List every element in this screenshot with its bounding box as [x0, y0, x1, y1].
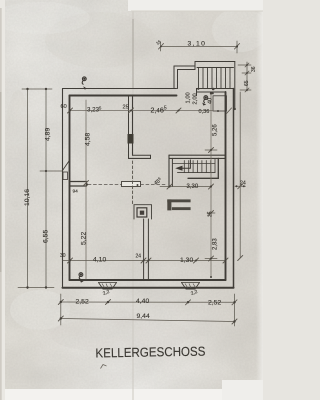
- exterior stairs top edge: [197, 67, 234, 69]
- interior wall vertical lower: [143, 219, 145, 280]
- entry enclosure top wall: [174, 65, 195, 67]
- wall top right segment under exterior stair: [197, 88, 234, 90]
- stair room left wall: [168, 155, 170, 186]
- window hatch right: [185, 284, 196, 289]
- dim bottom outside y300: [61, 301, 235, 303]
- steps symbol lower room: [167, 199, 190, 202]
- svg-text:2,00: 2,00: [193, 93, 199, 104]
- wall pier: [122, 182, 141, 187]
- small mark under title: [101, 365, 107, 369]
- interior stairs risers: [184, 158, 215, 172]
- dim right wall outside x240: [239, 92, 241, 258]
- dim 3,10 line: [161, 46, 238, 48]
- svg-text:94: 94: [73, 189, 79, 195]
- symbol 40 entry: [204, 96, 208, 103]
- entry enclosure jog: [194, 62, 196, 70]
- dimension lines group: [18, 41, 251, 326]
- svg-text:3,10: 3,10: [188, 41, 207, 48]
- svg-text:24: 24: [240, 181, 246, 187]
- svg-text:3,30: 3,30: [187, 184, 199, 190]
- svg-text:5,22: 5,22: [81, 232, 88, 245]
- svg-text:60: 60: [61, 104, 67, 110]
- svg-text:24: 24: [136, 254, 142, 260]
- svg-text:4,10: 4,10: [93, 257, 106, 264]
- entry enclosure top wall 2: [195, 61, 235, 63]
- dim line B 10,16: [27, 89, 29, 289]
- svg-text:1,30: 1,30: [180, 257, 193, 264]
- svg-text:10,16: 10,16: [24, 189, 31, 206]
- window hatch left: [102, 284, 113, 289]
- wall mid-left horizontal: [70, 181, 87, 183]
- svg-text:2,52: 2,52: [76, 299, 89, 306]
- dim line A 4,89 / 6,55: [45, 89, 47, 288]
- window left bottom wall: [99, 283, 117, 290]
- interior stairs lower edge: [178, 172, 216, 174]
- chimney solid: [128, 134, 134, 144]
- enclosure wall end tick: [232, 108, 241, 110]
- wall left outer: [62, 89, 64, 288]
- svg-text:2,83: 2,83: [213, 238, 219, 250]
- wall left inner: [69, 96, 71, 281]
- dim bottom outside y320.5: [61, 319, 235, 322]
- wall right outer: [233, 89, 235, 288]
- interior wall leg: [129, 157, 151, 159]
- dim interior horizontal y110: [70, 110, 213, 112]
- niche in left wall: [63, 160, 70, 170]
- symbol 40 top wall: [82, 77, 86, 85]
- svg-text:0,36: 0,36: [199, 109, 210, 115]
- tick dots: [26, 45, 248, 322]
- stair room top wall: [169, 154, 226, 156]
- interior stairs upper edge: [173, 163, 215, 165]
- door opening dashed: [88, 184, 122, 186]
- wall bottom inner: [70, 279, 226, 281]
- svg-text:25: 25: [208, 211, 214, 217]
- chimney box top right: [213, 96, 227, 111]
- dim bottom interior y260.5: [63, 260, 226, 262]
- symbol 40 bottom wall: [79, 273, 83, 280]
- fold line upper darker: [132, 19, 134, 88]
- svg-text:1,00: 1,00: [186, 92, 192, 103]
- column box lower middle: [134, 205, 152, 219]
- photo edge horizontal: [131, 10, 263, 12]
- entry enclosure left wall: [173, 66, 175, 89]
- dim interior vertical x86: [85, 100, 87, 279]
- svg-text:KELLERGESCHOSS: KELLERGESCHOSS: [95, 344, 206, 361]
- exterior stairs risers: [199, 68, 231, 89]
- soft scan edge shadow: [0, 8, 2, 400]
- door opening dashed 2: [141, 184, 166, 186]
- wall right inner: [225, 92, 227, 280]
- guide stubs bottom: [60, 294, 62, 325]
- svg-text:65: 65: [244, 80, 250, 86]
- svg-text:4,58: 4,58: [85, 133, 92, 146]
- dim interior vertical x211: [210, 94, 212, 278]
- dim left outer ticks top: [22, 88, 52, 90]
- dim stair room y186.5: [160, 186, 211, 188]
- svg-text:5,26: 5,26: [213, 124, 219, 136]
- wall top outer: [63, 88, 177, 90]
- svg-text:4,89: 4,89: [45, 128, 52, 141]
- svg-text:40: 40: [208, 98, 214, 104]
- svg-text:9,44: 9,44: [137, 313, 150, 320]
- stair direction arrow interior: [182, 160, 190, 169]
- white bottom band: [0, 389, 263, 400]
- wall bottom outer: [63, 287, 234, 289]
- svg-text:36: 36: [251, 66, 257, 72]
- interior stairs rail: [188, 158, 218, 178]
- window right bottom wall: [182, 283, 200, 290]
- dim exterior stairs vertical: [246, 62, 248, 91]
- fold line vertical: [132, 11, 134, 400]
- interior wall vertical upper: [128, 96, 130, 159]
- junction dots stair base: [197, 88, 199, 90]
- entry enclosure right wall: [234, 62, 236, 110]
- wall top inner: [70, 95, 177, 97]
- door jamb right of entry: [196, 89, 198, 96]
- beam dashed line: [132, 161, 134, 204]
- lighter band top above photo edge: [128, 0, 263, 11]
- svg-text:6,55: 6,55: [43, 230, 50, 243]
- svg-text:25: 25: [123, 105, 129, 111]
- svg-text:30: 30: [60, 253, 66, 259]
- svg-text:2,52: 2,52: [208, 300, 221, 307]
- svg-text:4,40: 4,40: [136, 298, 149, 305]
- light left margin: [0, 0, 5, 400]
